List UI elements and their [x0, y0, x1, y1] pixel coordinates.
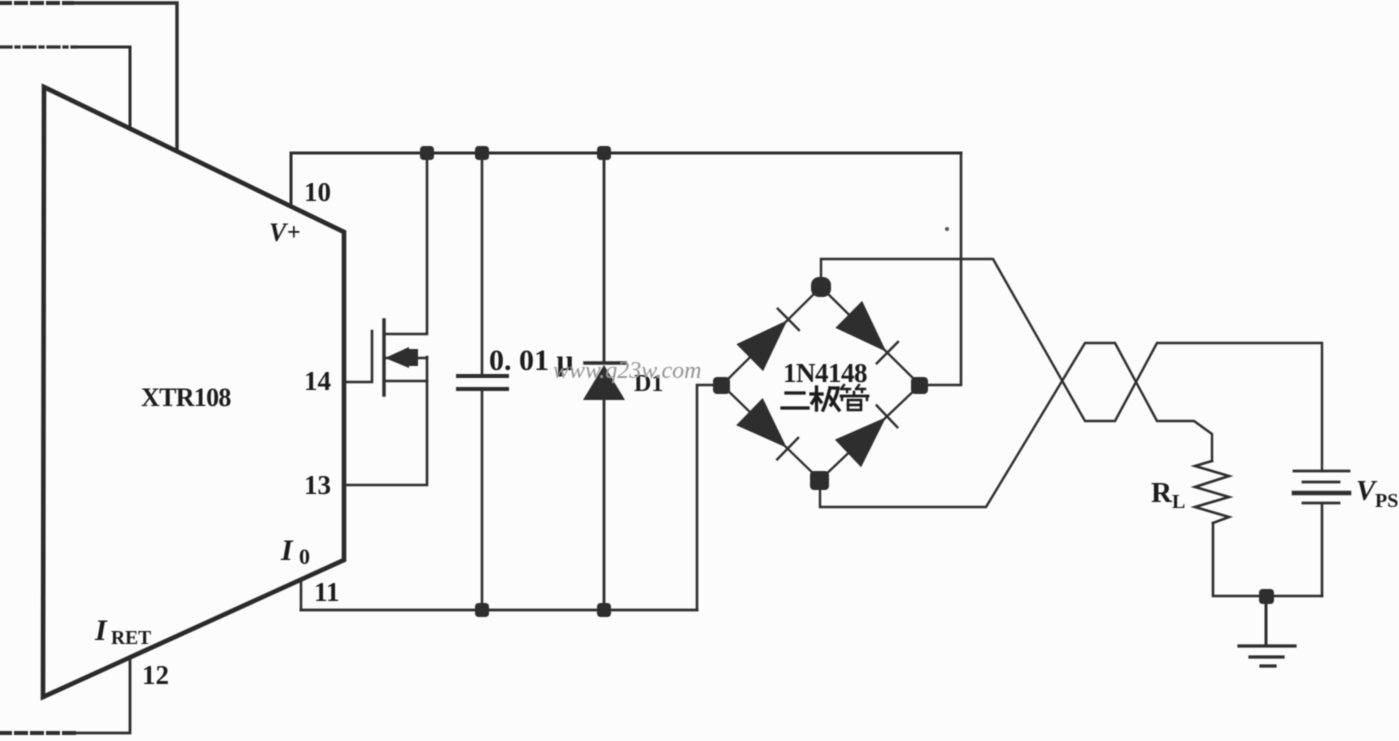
wire pin 11 drop [300, 579, 303, 610]
diode bridge D5 (bottom node to right node) [835, 417, 886, 467]
node bridge left [713, 377, 730, 394]
battery VPS plates [1294, 470, 1349, 473]
wire second dash-dot lead (external sensor line 2) [0, 45, 76, 48]
wire V+ top rail [291, 152, 961, 155]
wire ground stub [1265, 596, 1268, 645]
wire rail drop to bridge right node [928, 153, 961, 385]
node bridge bottom [810, 471, 829, 490]
wire top-left dashed lead (external sensor line 1) [0, 1, 72, 5]
wire bottom return rail [301, 609, 697, 612]
transistor Q1 channel bar [382, 320, 385, 395]
wire bridge bottom node to twisted pair (lower) [820, 343, 1212, 507]
node bridge right [911, 377, 928, 394]
svg-text:www.q23w.com: www.q23w.com [553, 358, 701, 384]
bridge edge bottom-left [722, 385, 820, 480]
junction dot (diode D1 / bottom rail) [597, 603, 611, 617]
junction dot (capacitor / rail) [475, 146, 489, 160]
transistor Q1 source wire [384, 380, 427, 383]
junction dot (ground node) [1259, 589, 1274, 604]
wire source down to pin 13 [344, 357, 427, 485]
diode bridge D2 (left node to top node) [736, 320, 787, 371]
wire bottom dashed lead [0, 731, 74, 735]
svg-text:14: 14 [304, 366, 331, 396]
diode bridge D3 (top node to right node) [835, 301, 886, 352]
svg-text:R: R [1151, 477, 1173, 509]
svg-text:I: I [94, 614, 108, 647]
wire pin 12 lead [74, 658, 130, 733]
svg-text:13: 13 [304, 470, 331, 500]
node bridge top [811, 277, 831, 297]
bridge edge top-left [722, 287, 821, 385]
svg-text:+: + [287, 220, 301, 246]
capacitor C1 top lead [481, 153, 484, 375]
ground symbol [1239, 644, 1295, 647]
capacitor C1 bottom lead [481, 390, 484, 610]
wire bridge top node to twisted pair (upper) [821, 259, 1322, 471]
wire RL bottom lead [1213, 523, 1322, 596]
stray dot [945, 227, 949, 231]
capacitor C1 plates [458, 374, 507, 378]
wire battery bottom lead [1321, 505, 1324, 596]
svg-text:PS: PS [1375, 490, 1398, 512]
diode D1 cathode bar [585, 361, 625, 365]
svg-text:10: 10 [304, 177, 331, 207]
bridge edge bottom-right [820, 385, 920, 480]
svg-text:V: V [269, 218, 289, 247]
diode D1 top lead [603, 153, 606, 362]
bridge label CJK "diode" (drawn glyphs) [782, 385, 868, 410]
glyph er [782, 393, 808, 408]
diode D1 bottom lead [603, 399, 606, 610]
diode D1 triangle [583, 365, 625, 400]
IC XTR108 trapezoid body [43, 87, 344, 697]
svg-text:XTR108: XTR108 [141, 383, 231, 412]
wire pin 10 to V+ rail [290, 153, 293, 204]
junction dot (diode D1 / rail) [597, 146, 611, 160]
svg-text:0: 0 [299, 544, 310, 569]
svg-text:I: I [280, 534, 294, 567]
transistor Q1 gate lead from pin 14 [344, 331, 372, 382]
svg-text:12: 12 [142, 660, 169, 690]
wire second lead solid [76, 47, 130, 128]
diode bridge D4 (left node to bottom node) [736, 398, 787, 448]
glyph ji [811, 387, 839, 410]
wire riser to bridge left node [697, 385, 714, 610]
junction dot (MOSFET drain / rail) [420, 146, 434, 160]
svg-text:11: 11 [314, 577, 340, 607]
junction dot (capacitor / bottom rail) [475, 603, 489, 617]
transistor Q1 body contact with arrow [384, 357, 427, 360]
transistor Q1 drain wire [384, 153, 427, 334]
svg-text:L: L [1172, 491, 1185, 513]
svg-text:RET: RET [111, 628, 151, 649]
wire top lead solid to pin area [72, 3, 177, 150]
bridge edge top-right [821, 287, 920, 385]
resistor RL zigzag [1195, 461, 1229, 523]
glyph guan [841, 385, 868, 410]
svg-text:1N4148: 1N4148 [783, 358, 867, 388]
